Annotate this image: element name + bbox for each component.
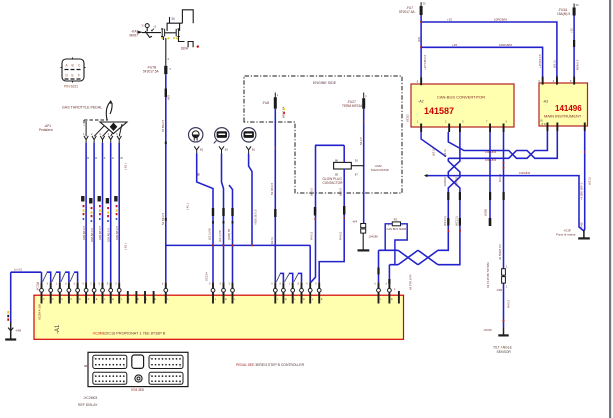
fuse FU8 body	[274, 97, 277, 109]
svg-text:86: 86	[335, 158, 339, 162]
svg-text:SENSOR: SENSOR	[497, 350, 512, 354]
svg-text:XC3D: XC3D	[406, 115, 410, 122]
pedal mechanical dashed link	[84, 120, 108, 126]
lamp2 wire to ECU	[222, 154, 224, 283]
tiny pin numbers	[38, 283, 396, 292]
pedal wire 3	[102, 143, 104, 283]
junction mark	[274, 147, 276, 149]
svg-text:141587: 141587	[424, 106, 454, 116]
switch actuator	[145, 28, 152, 38]
svg-text:R3 0.5: R3 0.5	[498, 173, 502, 182]
svg-text:+4.5B0 3RF 0: +4.5B0 3RF 0	[580, 182, 584, 200]
svg-text:B: B	[72, 64, 74, 68]
svg-text:02B AB 0.5: 02B AB 0.5	[106, 228, 110, 242]
svg-text:+15 B4 0.5: +15 B4 0.5	[538, 54, 542, 68]
diagnostic connector outline	[88, 352, 188, 386]
svg-text:10RG8/M: 10RG8/M	[499, 43, 512, 47]
svg-text:Punto di massa: Punto di massa	[556, 233, 576, 237]
svg-text:(X2.1) 58: (X2.1) 58	[208, 228, 212, 240]
pedal lever arc	[106, 102, 112, 120]
chain jumper pins 3-4	[61, 273, 65, 282]
svg-text:PIN 6231: PIN 6231	[64, 85, 78, 89]
engine side dashed boundary	[244, 76, 402, 193]
svg-text:-XC96: -XC96	[483, 328, 492, 332]
svg-text:87: 87	[355, 172, 359, 176]
connector PIN 6231 block	[62, 59, 84, 81]
svg-text:5F2017.5A: 5F2017.5A	[143, 70, 159, 74]
FU7 feed wire	[420, 15, 422, 77]
svg-text:-FU8: -FU8	[262, 101, 269, 105]
svg-text:XC2M-A 108: XC2M-A 108	[38, 304, 42, 320]
chain jumper pins 1-2	[43, 273, 47, 282]
svg-text:(X1): (X1)	[417, 37, 421, 42]
svg-text:-X4M: -X4M	[15, 329, 21, 333]
connector arrow pin 3	[100, 136, 104, 143]
svg-text:K: K	[104, 156, 106, 160]
svg-text:MAIN INSTRUMENT: MAIN INSTRUMENT	[544, 114, 582, 119]
svg-text:02B AB 0.5: 02B AB 0.5	[115, 226, 119, 240]
tilt sensor wire	[503, 132, 505, 328]
connector pin slots row1	[65, 69, 81, 71]
switch small arrow	[151, 29, 154, 31]
glow plug contactor KM2 coil	[334, 162, 352, 169]
wire between connectors	[165, 32, 176, 34]
CAN box top pin	[420, 77, 422, 85]
svg-text:+15 54B 0.5: +15 54B 0.5	[423, 54, 427, 70]
svg-text:R4B: R4B	[580, 222, 584, 228]
svg-text:( X3 ): ( X3 )	[124, 163, 128, 170]
glow loop right wire upper	[343, 145, 345, 162]
svg-text:180A: 180A	[181, 47, 189, 51]
red terminal dot	[197, 45, 199, 47]
svg-text:30: 30	[171, 17, 175, 21]
frame ground XC3F	[583, 230, 585, 238]
svg-text:02B AB 0.5: 02B AB 0.5	[82, 226, 86, 240]
svg-text:ENGINE SIDE: ENGINE SIDE	[313, 81, 337, 85]
inline connector pair 1	[161, 29, 165, 37]
chain jumper pins 3-4	[294, 274, 298, 282]
svg-text:G: G	[112, 156, 114, 160]
svg-text:GAS THROTTLE PEDAL: GAS THROTTLE PEDAL	[62, 106, 102, 110]
svg-text:9B: 9B	[84, 364, 87, 368]
diagnostic connector block BR	[149, 372, 183, 384]
chain jumper pins 2-3	[285, 274, 290, 282]
KM2 contact branch	[351, 165, 363, 167]
svg-text:30: 30	[355, 158, 359, 162]
signal wire to frame ground	[427, 176, 584, 231]
K line drop to pin 5	[309, 245, 311, 282]
svg-text:5A 0.5: 5A 0.5	[359, 137, 363, 145]
svg-text:(X3.1): (X3.1)	[552, 60, 556, 68]
ground wire flecks	[7, 311, 9, 313]
pedal wire 2	[93, 143, 95, 283]
svg-text:M097: M097	[130, 34, 139, 38]
ground lead lower black	[10, 322, 12, 339]
svg-text:Pedaliera: Pedaliera	[39, 128, 53, 132]
svg-text:(X2.1) 58: (X2.1) 58	[218, 230, 222, 242]
svg-text:B: B	[87, 156, 89, 160]
Main instrument unit A3 box	[539, 83, 588, 126]
svg-text:XC214: XC214	[205, 272, 209, 281]
connector arrow pin 2	[92, 136, 96, 143]
R2 left lead	[385, 224, 392, 251]
ECU connector pin bars	[41, 282, 391, 303]
relay 30 feed	[169, 17, 171, 23]
connector centre square	[132, 355, 144, 368]
svg-text:( X3 ): ( X3 )	[124, 243, 128, 250]
lamp connector Y 3	[246, 146, 251, 153]
svg-text:CONTACTOR: CONTACTOR	[323, 181, 344, 185]
svg-text:54 BA 0.5: 54 BA 0.5	[161, 119, 165, 132]
spare wire XC2F	[489, 132, 491, 218]
svg-text:TERM.MF23A: TERM.MF23A	[342, 104, 363, 108]
bus drop to pin 1	[41, 272, 43, 282]
svg-text:R4 0.5: R4 0.5	[310, 231, 314, 240]
CAN H wire from converter	[448, 131, 547, 158]
svg-text:F: F	[78, 74, 80, 78]
svg-text:M5A 0.5: M5A 0.5	[576, 59, 580, 70]
svg-text:~2: ~2	[153, 25, 157, 29]
instrument bottom pins	[547, 123, 549, 132]
inline connector on FU7B wire	[165, 89, 167, 98]
svg-text:1m 0.5: 1m 0.5	[14, 268, 22, 272]
switch contact circle	[145, 24, 149, 28]
ignition plus rail upper	[421, 22, 557, 77]
right leg top hook	[182, 10, 193, 23]
ECU A1 engine control unit box	[34, 295, 404, 339]
potentiometer triangle	[100, 122, 127, 134]
svg-text:02B AB 0.5: 02B AB 0.5	[98, 226, 102, 240]
svg-text:M124 DS708: M124 DS708	[371, 168, 389, 172]
left arrow of signal wire	[424, 174, 427, 177]
svg-text:-W4: -W4	[352, 220, 358, 224]
svg-text:64 5TR.8 PF: 64 5TR.8 PF	[409, 274, 413, 290]
svg-text:E: E	[72, 74, 74, 78]
pedal wire 6	[118, 143, 120, 283]
wire down from switch to fuse FU7B	[163, 37, 165, 66]
ground symbol engine	[358, 249, 370, 251]
svg-text:10RG8: 10RG8	[455, 177, 459, 186]
svg-text:02B AB 0.5: 02B AB 0.5	[90, 228, 94, 242]
warning lamp L1 bulb	[189, 128, 203, 142]
svg-text:15A(M) 5: 15A(M) 5	[557, 12, 570, 16]
svg-text:EDC16 PROPIONAT 1 7EE 8T33P B: EDC16 PROPIONAT 1 7EE 8T33P B	[103, 332, 166, 336]
svg-text:( XL ): ( XL )	[186, 203, 190, 210]
ignition plus rail lower	[421, 47, 542, 77]
fuse FU27 body	[362, 98, 365, 109]
svg-text:+15: +15	[447, 18, 452, 22]
fuse FU3 body	[573, 8, 576, 16]
connector arrow pin 6	[117, 136, 121, 143]
svg-text:(X3.1): (X3.1)	[588, 177, 592, 185]
lamp connector Y 1	[194, 146, 199, 153]
CAN wires to ECU pins	[379, 250, 390, 282]
inline connectors on lamp wires	[212, 208, 214, 216]
chain jumper pins 4-5	[70, 273, 74, 282]
inline connectors on glow wires	[314, 207, 316, 216]
svg-text:10RG8: 10RG8	[443, 177, 447, 186]
fuse FU7 body	[420, 6, 423, 15]
svg-text:5F2017.5A: 5F2017.5A	[399, 10, 415, 14]
svg-text:98: 98	[197, 172, 201, 176]
svg-text:34 5DR8 0.5: 34 5DR8 0.5	[498, 244, 502, 260]
chain jumper pins 2-3	[52, 273, 56, 282]
FU8 wire to ECU	[274, 109, 276, 283]
pedal wire 4	[110, 143, 112, 283]
svg-text:10RG8/M: 10RG8/M	[519, 171, 530, 175]
diagnostic connector block TR	[149, 355, 183, 368]
svg-text:S: S	[142, 24, 144, 28]
sensor leads to connector arrows	[86, 121, 122, 136]
CAN-BUS converter unit U-A2 box	[411, 84, 514, 127]
svg-text:(X2.1): (X2.1)	[270, 237, 274, 245]
fuse FU7B body	[164, 66, 167, 74]
svg-text:10RG8/M: 10RG8/M	[494, 18, 507, 22]
svg-text:+B30 3E 0.5: +B30 3E 0.5	[254, 209, 258, 225]
tilt wire connector pair	[502, 269, 506, 276]
svg-text:TILT ANGLE: TILT ANGLE	[493, 346, 513, 350]
connector arrow pin 1	[84, 136, 88, 143]
wire from pin1 into CAN-L	[421, 132, 446, 157]
svg-text:104280: 104280	[369, 235, 379, 239]
connector corner pin labels	[94, 357, 182, 384]
chassis ground symbol left	[5, 338, 16, 340]
tilt sensor ground	[503, 328, 505, 336]
ECU spare pin stubs	[127, 291, 400, 304]
svg-text:B1: B1	[200, 148, 204, 152]
connector side ticks	[61, 58, 86, 83]
svg-text:+15: +15	[569, 28, 573, 33]
pedal lever arrow tip	[109, 100, 113, 104]
ground bus wire	[11, 271, 42, 273]
glow loop right wire lower	[319, 169, 344, 282]
svg-text:54 R8 0.5: 54 R8 0.5	[270, 182, 274, 195]
instrument top pins	[542, 77, 544, 85]
CAN pair drop	[438, 200, 460, 265]
CAN box bottom pins	[420, 124, 422, 133]
inline connector pair 2	[176, 29, 180, 37]
CAN rails to ECU	[379, 250, 399, 264]
relay bridge top	[167, 23, 182, 31]
lamp connector Y 2	[219, 146, 224, 153]
svg-text:(XC2.1): (XC2.1)	[443, 216, 447, 226]
pedal wire 1	[85, 143, 87, 283]
CAN twist double crossover lower	[398, 250, 438, 264]
svg-text:97M.3E8: 97M.3E8	[131, 388, 144, 392]
fuse FU27 pin stub	[363, 93, 365, 99]
svg-text:R4 0.5: R4 0.5	[507, 299, 511, 308]
svg-text:B1: B1	[225, 148, 229, 152]
connector arrow pin 4	[109, 136, 113, 143]
termination resistor R2	[392, 222, 400, 226]
connector centre screw	[135, 375, 142, 382]
connector pin dots	[95, 358, 181, 382]
connector pin slots row2	[65, 78, 81, 80]
svg-text:04.74.35.BF 52T6/M: 04.74.35.BF 52T6/M	[486, 262, 490, 288]
svg-text:CAN-BUS CONVERTITOR: CAN-BUS CONVERTITOR	[437, 95, 485, 100]
svg-text:9A 0.5: 9A 0.5	[310, 188, 314, 196]
wire code colour flecks	[81, 196, 118, 222]
svg-text:R: R	[95, 156, 97, 160]
svg-text:CAN BUS TERM: CAN BUS TERM	[387, 227, 407, 231]
instrument ground wire	[583, 131, 586, 231]
page border line right	[609, 0, 611, 418]
svg-text:+15: +15	[452, 43, 457, 47]
svg-text:(X2.1): (X2.1)	[432, 148, 436, 156]
lamp1 wire to ECU	[197, 154, 213, 283]
diagnostic connector block TL	[93, 355, 127, 368]
potentiometer wiper diamond	[110, 123, 118, 131]
wire FU7B long drop	[165, 74, 167, 282]
R2 right lead	[395, 224, 407, 265]
indicator icon L2	[215, 128, 229, 142]
svg-text:XC214: XC214	[36, 282, 40, 291]
fuse FU3 pin 30	[573, 4, 575, 8]
svg-text:-A3: -A3	[543, 100, 549, 104]
svg-text:(X2.1): (X2.1)	[443, 149, 447, 157]
svg-text:B1: B1	[252, 148, 256, 152]
svg-text:9A 0.5: 9A 0.5	[339, 188, 343, 196]
svg-text:-XC2M03: -XC2M03	[83, 396, 97, 400]
svg-text:85: 85	[335, 172, 339, 176]
CAN twist double crossover middle	[448, 158, 460, 192]
fuse FU8 pin stub	[274, 93, 276, 98]
CAN L wire from converter	[448, 131, 557, 158]
svg-text:PEDAL 5EE 3ERE/3 STEP B CONTRO: PEDAL 5EE 3ERE/3 STEP B CONTROLLER	[236, 363, 305, 367]
chain jumper pins 1-2	[276, 274, 280, 282]
K-line horizontal run	[166, 244, 310, 246]
svg-text:A81: A81	[167, 95, 171, 100]
svg-text:-X2M: -X2M	[496, 288, 502, 292]
svg-text:-A1: -A1	[55, 324, 61, 334]
diagnostic connector block BL	[93, 372, 127, 384]
svg-text:(XC2.1): (XC2.1)	[455, 216, 459, 226]
junction dots on K line	[212, 244, 214, 246]
svg-text:(X2B): (X2B)	[484, 209, 488, 216]
svg-text:6 6: 6 6	[542, 122, 547, 126]
shield screen symbol	[361, 224, 366, 228]
svg-text:REF DISLAY: REF DISLAY	[78, 403, 98, 407]
CAN pair connectors row2	[447, 218, 449, 226]
svg-text:54 BA 0.5: 54 BA 0.5	[161, 212, 165, 225]
svg-text:-R2: -R2	[393, 218, 398, 222]
svg-text:R4 0.5: R4 0.5	[339, 231, 343, 240]
tick on wire	[165, 142, 167, 145]
wire switch feed	[142, 32, 161, 34]
ground lead left	[10, 272, 12, 322]
fuse FU7 pin 30	[420, 2, 422, 6]
ground connector chevron	[8, 328, 13, 331]
svg-text:(X2B) 58: (X2B) 58	[227, 229, 231, 240]
ECU pin socket circles	[40, 288, 392, 292]
glow loop left wire	[311, 145, 316, 282]
svg-text:141496: 141496	[555, 104, 582, 113]
FU27 wire down	[363, 109, 365, 224]
indicator icon L3	[242, 128, 256, 142]
lamp3 wire drop	[249, 154, 252, 246]
svg-text:-A2: -A2	[418, 100, 424, 104]
svg-text:-XC3M: -XC3M	[92, 332, 103, 336]
right drop leg	[179, 37, 194, 48]
shield drain to ground	[362, 233, 364, 250]
FU3 wire down to instrument	[573, 16, 575, 78]
inline connector on FU8 wire	[274, 209, 276, 217]
feed arrow into switch	[138, 31, 144, 34]
third wire to ECU	[229, 185, 233, 282]
glow plug loop top	[315, 144, 344, 146]
